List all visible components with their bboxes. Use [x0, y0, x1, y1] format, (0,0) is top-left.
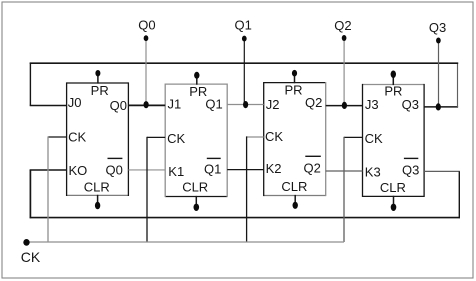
JK flip-flop U4 box	[363, 84, 425, 197]
U2 CLR terminal stub wire	[195, 196, 197, 206]
U3 PR terminal stub wire	[294, 74, 296, 83]
wire monitor tap vertical Q2	[343, 38, 345, 105]
U4 overline bar of Q3-bar	[404, 157, 418, 159]
U1 PR terminal dot	[95, 70, 100, 76]
svg-text:K3: K3	[365, 164, 381, 179]
wire Q3 output to feedback corner	[424, 106, 458, 108]
svg-text:Q1: Q1	[205, 96, 222, 111]
U1 CLR terminal stub wire	[97, 195, 99, 205]
svg-text:Q1: Q1	[235, 18, 252, 33]
svg-text:K1: K1	[168, 164, 184, 179]
node junction dot on Q2 wire	[342, 102, 347, 109]
U2 CLR terminal dot	[194, 204, 200, 211]
svg-text:J1: J1	[168, 97, 182, 112]
svg-text:Q2: Q2	[334, 18, 351, 33]
svg-text:Q1: Q1	[204, 162, 221, 177]
wire into J0	[30, 105, 67, 107]
svg-text:CLR: CLR	[281, 179, 307, 194]
svg-text:CLR: CLR	[182, 180, 208, 195]
wire feedback right vertical from Q3-bar down	[458, 171, 460, 218]
wire Q3-bar output to feedback corner	[424, 170, 460, 172]
wire CK riser U1	[47, 136, 49, 242]
U4 PR terminal stub wire	[392, 75, 394, 85]
wire monitor tap vertical Q0	[145, 38, 147, 105]
wire bottom feedback bus Q3-bar to K0	[30, 217, 460, 219]
wire CK stub into U4	[344, 136, 363, 138]
wire Q0 to J1	[128, 104, 165, 106]
wire Q1-bar to K2	[227, 169, 264, 171]
wire into K0	[30, 169, 67, 171]
svg-text:CK: CK	[167, 131, 185, 146]
U2 PR terminal dot	[194, 72, 199, 79]
U3 CLR terminal stub wire	[294, 195, 296, 204]
node junction dot on Q0 wire	[144, 101, 149, 108]
wire monitor tap vertical Q1	[243, 39, 245, 105]
wire CK stub into U1	[48, 136, 67, 138]
node junction dot on Q3 wire	[436, 103, 441, 110]
U3 CLR terminal dot	[293, 202, 298, 209]
wire CK riser U2	[146, 137, 148, 242]
U4 CLR terminal stub wire	[393, 196, 395, 207]
wire top feedback bus Q3 to J0	[30, 62, 459, 64]
wire CK stub into U2	[147, 136, 165, 138]
wire Q2 to J3	[326, 105, 363, 107]
node Q0 terminal dot	[144, 35, 149, 41]
wire feedback right vertical from Q3 up	[457, 63, 459, 107]
wire CK stub into U3	[247, 136, 264, 138]
svg-text:K2: K2	[266, 161, 282, 176]
svg-text:CLR: CLR	[380, 180, 406, 195]
svg-text:Q0: Q0	[106, 163, 123, 178]
wire Q1 to J2	[227, 104, 264, 106]
svg-text:CK: CK	[265, 129, 283, 144]
svg-text:Q3: Q3	[402, 163, 419, 178]
wire CK riser U4	[343, 137, 345, 242]
svg-text:KO: KO	[69, 163, 88, 178]
wire monitor tap vertical Q3	[438, 41, 440, 107]
U3 PR terminal dot	[292, 70, 297, 77]
node Q2 terminal dot	[342, 35, 347, 41]
wire Q0-bar to K1	[128, 169, 165, 171]
svg-text:J2: J2	[266, 97, 280, 112]
node junction dot on Q1 wire	[243, 101, 248, 108]
wire feedback left vertical down to J0	[29, 63, 31, 106]
svg-text:PR: PR	[284, 82, 302, 97]
U1 PR terminal stub wire	[97, 74, 99, 83]
JK flip-flop U2 box	[165, 84, 227, 198]
U1 CLR terminal dot	[95, 202, 100, 209]
U4 PR terminal dot	[391, 71, 396, 78]
svg-text:CK: CK	[365, 131, 383, 146]
svg-text:CK: CK	[21, 249, 41, 265]
JK flip-flop U1 box	[67, 82, 129, 196]
svg-text:Q2: Q2	[304, 161, 321, 176]
svg-text:J3: J3	[365, 97, 379, 112]
U1 overline bar of Q0-bar	[108, 157, 123, 159]
svg-text:PR: PR	[384, 84, 402, 99]
svg-text:Q3: Q3	[429, 20, 446, 35]
U4 CLR terminal dot	[391, 204, 397, 211]
U3 overline bar of Q2-bar	[305, 155, 321, 157]
wire CK bus horizontal	[27, 241, 345, 243]
svg-text:PR: PR	[91, 83, 109, 98]
U2 overline bar of Q1-bar	[207, 157, 221, 159]
svg-text:J0: J0	[68, 95, 82, 110]
svg-text:Q0: Q0	[110, 98, 127, 113]
wire CK riser U3	[246, 136, 248, 242]
wire feedback left vertical up to K0	[29, 170, 31, 218]
JK flip-flop U3 box	[264, 82, 326, 196]
svg-text:CK: CK	[68, 129, 86, 144]
svg-text:Q3: Q3	[402, 97, 419, 112]
node Q1 terminal dot	[242, 36, 247, 42]
wire Q2-bar to K3	[326, 170, 363, 172]
svg-text:CLR: CLR	[84, 179, 110, 194]
U2 PR terminal stub wire	[196, 76, 198, 84]
node CK input terminal dot	[23, 239, 29, 246]
node Q3 terminal dot	[436, 38, 441, 44]
svg-text:Q2: Q2	[305, 95, 322, 110]
svg-text:Q0: Q0	[138, 17, 155, 32]
